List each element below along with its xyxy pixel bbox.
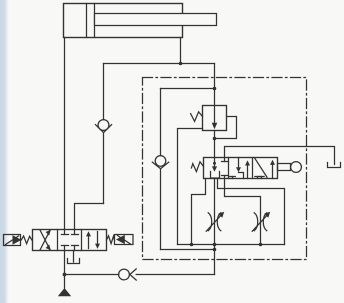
wire: return gallery — [178, 244, 285, 246]
wire: cylinder left port down to valve A — [64, 38, 66, 230]
pilot valve V3 roller plunger — [278, 162, 302, 173]
pilot directional valve V3 body — [204, 158, 278, 179]
enclosure (manifold dash-dot box) — [143, 78, 307, 260]
node: p1 on return gallery — [190, 243, 194, 247]
spring right of V5 — [107, 236, 115, 244]
wire: top horizontal run — [104, 63, 215, 65]
wire: right vertical down to relief valve — [214, 64, 216, 106]
wire: pilot valve T to tank — [225, 147, 335, 165]
throttle valve L1 — [206, 212, 224, 232]
relief valve B1 pilot loop — [215, 117, 237, 139]
wire: valve port p3 to outer right drop — [218, 179, 285, 245]
tank T1 — [328, 163, 341, 168]
wire: relief to pilot valve P — [214, 131, 216, 158]
solenoid right of V5 — [115, 235, 134, 245]
spring left of V5 — [21, 236, 32, 244]
wire: V5 T port to tank — [73, 251, 75, 263]
relief valve B1 drain line — [178, 129, 203, 245]
check valve V2 — [152, 156, 168, 250]
main valve V5 cell2 closed center — [62, 230, 79, 251]
wire: branch line to check valve V2 — [161, 249, 215, 251]
cylinder piston — [87, 4, 95, 38]
pilot valve V3 spring — [191, 162, 203, 172]
solenoid left of V5 — [4, 235, 22, 246]
node: pressure line meets branch line — [213, 248, 217, 252]
node: pressure line on return gallery — [213, 243, 217, 247]
throttle valve L2 — [252, 212, 270, 232]
wire: pump pressure line — [65, 274, 119, 276]
node: rod-side junction — [179, 62, 183, 66]
check valve V4 — [119, 269, 215, 280]
node: below relief valve — [213, 137, 217, 141]
main valve V5 cell3 parallel arrows — [86, 231, 100, 248]
relief valve B1 body — [203, 106, 227, 131]
wire: valve port p4 through right throttle — [225, 179, 261, 245]
node: pump junction — [63, 273, 67, 277]
relief valve B1 spring — [191, 112, 203, 122]
node: right throttle on return gallery — [259, 243, 263, 247]
wire: branch left toward check valve V2 — [161, 88, 215, 90]
wire: V5 P port down — [64, 251, 66, 275]
main directional valve V5 body — [33, 230, 107, 251]
cylinder rod — [95, 14, 217, 26]
wire: jog to valve B port — [75, 204, 104, 230]
check valve V1 — [95, 64, 111, 204]
pressure source — [58, 275, 71, 297]
cylinder body — [64, 4, 183, 38]
pilot valve V3 cell2 internals — [230, 158, 250, 179]
pilot valve V3 cell1 internals — [211, 158, 228, 179]
wire: cylinder rod-side port down — [180, 38, 182, 64]
main valve V5 cell1 crossed arrows — [40, 230, 51, 251]
tank T2 — [68, 259, 80, 264]
pilot valve V3 cell3 internals — [255, 158, 276, 179]
wire: pressure line through left throttle — [214, 179, 216, 275]
node: branch to check valve V2 — [213, 87, 217, 91]
wire: valve port p1 down-left — [192, 179, 206, 245]
